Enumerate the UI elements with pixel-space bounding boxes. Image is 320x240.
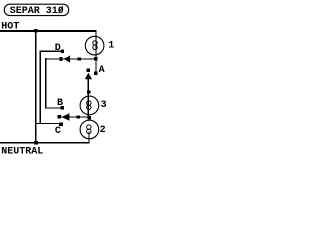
- junction dot above lamp L3: [87, 90, 91, 93]
- wire D stub horizontal: [40, 51, 62, 52]
- svg-text:A: A: [99, 65, 105, 76]
- lamp L2 filament: [87, 125, 91, 129]
- NEUTRAL rail: [0, 142, 90, 144]
- svg-text:C: C: [55, 126, 61, 137]
- lamp L1 circle: [85, 36, 104, 55]
- terminal A square (right): [94, 72, 97, 75]
- diode D2 cathode bar square (left of A): [87, 69, 91, 73]
- lamp L2 circle: [80, 120, 99, 139]
- wire v1 HOT drop (left vertical to neutral): [35, 30, 36, 143]
- svg-text:3: 3: [101, 100, 107, 111]
- lamp L1 feed wire from HOT rail corner: [95, 30, 96, 58]
- junction dot at node A column and W1: [94, 57, 98, 61]
- wire W3 horizontal (to junction of lamps): [58, 116, 90, 117]
- wire C stub horizontal from v1: [35, 123, 60, 124]
- wire W1 horizontal to node A column: [45, 58, 95, 59]
- node A terminal wire: [95, 58, 96, 72]
- svg-text:1: 1: [108, 41, 114, 52]
- diode D1 arrow (points left): [64, 55, 70, 62]
- lamp L3 circle: [80, 96, 99, 115]
- svg-text:2: 2: [100, 125, 106, 136]
- terminal C square: [59, 122, 63, 126]
- junction dot on NEUTRAL rail at v1: [34, 141, 38, 145]
- diode D3 arrow (points left): [62, 113, 70, 120]
- terminal B square: [61, 106, 65, 110]
- svg-text:SEPAR 310: SEPAR 310: [10, 6, 64, 17]
- junction dot between lamps L3 and L2: [87, 116, 91, 120]
- lamp L3 filament: [87, 101, 91, 105]
- diode D1 cathode bar: [59, 57, 62, 61]
- svg-text:D: D: [55, 43, 61, 54]
- svg-text:NEUTRAL: NEUTRAL: [1, 146, 43, 157]
- junction dot on wire W1: [77, 57, 81, 60]
- title bubble SEPAR 310: [4, 4, 68, 17]
- junction dot on wire W3: [76, 115, 80, 118]
- diode D2 arrow (points up): [85, 73, 92, 80]
- lamp L1 filament: [93, 41, 97, 45]
- HOT rail: [0, 30, 97, 32]
- svg-text:B: B: [57, 98, 63, 109]
- wire B stub horizontal: [45, 107, 62, 108]
- junction dot on HOT rail at v1: [34, 29, 38, 33]
- lamp L2 bottom wire to NEUTRAL corner: [88, 132, 89, 143]
- wire vD vertical from D stub down to C wire: [40, 51, 41, 125]
- wire vW1 vertical from wire-A corner down to B stub: [45, 58, 46, 108]
- terminal D square: [61, 50, 64, 53]
- wire from diode D2 down to lamp L3: [88, 79, 89, 118]
- diode D3 cathode bar: [58, 115, 61, 118]
